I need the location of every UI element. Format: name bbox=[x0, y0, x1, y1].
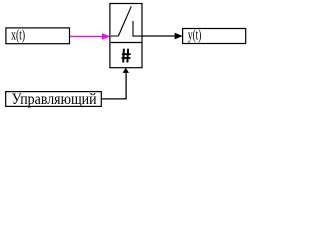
label # vertical stroke 1 bbox=[122, 49, 125, 63]
arrowhead control bbox=[123, 68, 130, 73]
svg-text:x(t): x(t) bbox=[11, 28, 25, 44]
svg-text:Управляющий: Управляющий bbox=[12, 91, 97, 108]
block x(t) bbox=[6, 28, 70, 44]
label # crossbar 1 bbox=[122, 53, 131, 55]
wire input signal (magenta) bbox=[70, 35, 103, 37]
wire control bbox=[102, 73, 126, 99]
arrowhead input (magenta) bbox=[102, 33, 110, 40]
divider line bbox=[111, 42, 142, 44]
svg-text:y(t): y(t) bbox=[188, 28, 202, 44]
label # vertical stroke 2 bbox=[126, 49, 129, 63]
wire output bbox=[142, 35, 176, 37]
icon hold segment bbox=[133, 21, 141, 36]
arrowhead output bbox=[175, 33, 183, 40]
block control bbox=[6, 92, 102, 107]
block sampler U1 bbox=[110, 4, 142, 68]
icon ramp segment bbox=[111, 6, 132, 36]
block y(t) bbox=[183, 29, 246, 44]
label # crossbar 2 bbox=[122, 57, 131, 59]
